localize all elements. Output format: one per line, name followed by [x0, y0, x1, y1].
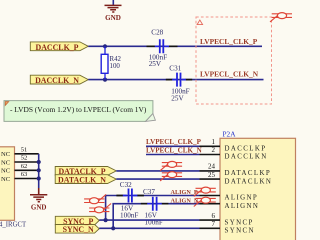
svg-text:LVPECL_CLK_P: LVPECL_CLK_P: [146, 138, 202, 146]
node junction SYNC_P / C32: [104, 218, 108, 222]
blanket dashed box: [196, 17, 272, 104]
svg-text:SYNCP: SYNCP: [225, 219, 254, 226]
differential pair directive (DATACLK_N): [160, 172, 182, 181]
svg-text:P2A: P2A: [223, 129, 237, 138]
svg-text:DATACLKP: DATACLKP: [225, 170, 272, 177]
wire net ALIGNN: [113, 204, 199, 229]
svg-text:52: 52: [21, 155, 28, 162]
component body (left, NC pins): [0, 147, 15, 221]
svg-text:ALIGNN: ALIGNN: [225, 203, 260, 210]
node junction pin 52: [37, 160, 41, 164]
svg-text:NC: NC: [1, 159, 11, 166]
port DATACLK_N: [55, 175, 116, 184]
node junction SYNC_N / C37: [111, 226, 115, 230]
svg-text:C28: C28: [151, 29, 163, 37]
pin 2: [200, 146, 221, 154]
note green box: [4, 101, 155, 122]
svg-text:LVPECL_CLK_P: LVPECL_CLK_P: [200, 37, 258, 46]
capacitor C31: [166, 65, 192, 103]
wire NC pins to ground: [38, 154, 40, 188]
svg-text:24: 24: [208, 163, 216, 171]
node junction R42 bottom: [103, 78, 107, 82]
capacitor C37: [141, 188, 169, 211]
svg-text:SYNCN: SYNCN: [225, 228, 255, 235]
wire net DACCLK_N: [88, 79, 263, 81]
pin 52: [15, 155, 39, 162]
wire net DACCLK_P: [88, 45, 262, 47]
differential pair directive (SYNC_P): [84, 194, 106, 203]
port SYNC_P: [55, 216, 99, 225]
ground GND bottom left: [30, 188, 47, 211]
svg-text:- LVDS (Vcom 1.2V) to LVPECL (: - LVDS (Vcom 1.2V) to LVPECL (Vcom 1V): [10, 105, 147, 114]
svg-text:LVPECL_CLK_N: LVPECL_CLK_N: [146, 146, 203, 154]
svg-text:4_IRGCT: 4_IRGCT: [0, 221, 27, 228]
wire net SYNC_N: [99, 227, 199, 229]
svg-text:SYNC_N: SYNC_N: [63, 225, 94, 234]
port DACCLK_N: [30, 75, 88, 85]
svg-text:ALIGN_P: ALIGN_P: [171, 189, 198, 196]
svg-text:25V: 25V: [149, 60, 162, 68]
capacitor C32: [116, 181, 143, 202]
svg-text:C37: C37: [143, 188, 155, 196]
svg-text:1: 1: [212, 138, 216, 146]
differential pair directive (DATACLK_P): [160, 161, 182, 170]
svg-text:7: 7: [212, 220, 216, 228]
svg-text:51: 51: [21, 146, 28, 153]
wire net LVPECL_CLK_N (to pin 2): [146, 154, 200, 156]
svg-text:C31: C31: [169, 65, 181, 73]
svg-text:DATACLK_N: DATACLK_N: [58, 175, 106, 184]
svg-text:R42: R42: [110, 56, 122, 63]
svg-text:ALIGNP: ALIGNP: [225, 195, 259, 202]
svg-text:25V: 25V: [171, 95, 184, 103]
svg-text:NC: NC: [1, 151, 11, 158]
pin 6: [200, 212, 221, 220]
wire net DATACLK_P: [116, 170, 199, 172]
port DATACLK_P: [55, 167, 116, 176]
pin 62: [15, 163, 39, 170]
differential pair directive (SYNC_N): [89, 204, 111, 213]
port DACCLK_P: [30, 42, 88, 52]
component P2A connector: [220, 129, 296, 240]
differential pair directive (ALIGN_N): [194, 197, 216, 206]
svg-text:GND: GND: [105, 14, 121, 22]
pin 7: [200, 220, 221, 228]
wire net DATACLK_N: [116, 178, 199, 180]
svg-text:NC: NC: [1, 168, 11, 175]
wire net ALIGNP: [106, 196, 200, 221]
node junction pin 62: [37, 168, 41, 172]
svg-text:DATACLKN: DATACLKN: [225, 178, 273, 185]
svg-text:DACCLKN: DACCLKN: [225, 154, 268, 161]
svg-text:DACCLKP: DACCLKP: [225, 146, 267, 153]
differential pair directive (top right): [270, 13, 292, 22]
pin ALIGNN: [200, 203, 221, 205]
svg-text:ALIGN_N: ALIGN_N: [171, 197, 199, 204]
svg-text:62: 62: [21, 163, 28, 170]
pin 1: [200, 138, 221, 146]
svg-text:DACCLK_P: DACCLK_P: [36, 43, 79, 52]
pin 24: [200, 163, 221, 171]
svg-text:25: 25: [208, 171, 216, 179]
svg-text:NC: NC: [1, 176, 11, 183]
svg-text:63: 63: [21, 171, 28, 178]
svg-text:100nF: 100nF: [120, 212, 138, 220]
svg-text:LVPECL_CLK_N: LVPECL_CLK_N: [200, 70, 259, 79]
svg-text:6: 6: [212, 212, 216, 220]
pin ALIGNP: [200, 195, 221, 197]
svg-text:GND: GND: [31, 203, 47, 211]
node junction R42 top: [103, 44, 107, 48]
svg-text:100: 100: [110, 63, 121, 70]
differential pair directive (ALIGN_P): [194, 187, 216, 196]
capacitor C28: [147, 29, 178, 68]
svg-text:2: 2: [212, 146, 216, 154]
port SYNC_N: [55, 225, 99, 234]
svg-text:DACCLK_N: DACCLK_N: [35, 76, 79, 85]
pin 25: [200, 171, 221, 179]
node junction pin 63: [37, 176, 41, 180]
svg-text:C32: C32: [120, 181, 132, 189]
pin 63: [15, 171, 39, 178]
ground GND top: [105, 0, 122, 22]
wire net LVPECL_CLK_P (to pin 1): [146, 145, 200, 147]
pin 51: [15, 146, 39, 153]
wire net SYNC_P: [99, 219, 199, 221]
resistor R42: [101, 46, 121, 79]
